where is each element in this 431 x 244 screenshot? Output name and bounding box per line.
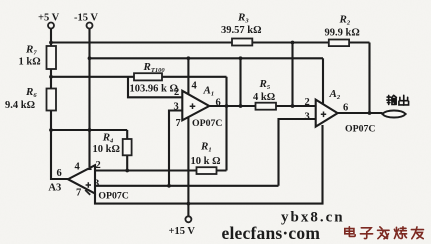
wire A3 output feedback column xyxy=(51,130,69,179)
wire bridge row to R4 xyxy=(51,129,127,131)
svg-text:OP07C: OP07C xyxy=(98,191,128,202)
resistor R1 xyxy=(197,167,217,174)
node dot R5 left xyxy=(239,104,243,108)
resistor RT100 sensor xyxy=(134,73,162,80)
svg-text:2: 2 xyxy=(305,97,310,108)
svg-text:elecfans·com: elecfans·com xyxy=(222,223,321,243)
op-amp A3 plus sign xyxy=(86,182,91,187)
op-amp A3 minus sign xyxy=(86,168,91,170)
svg-text:A3: A3 xyxy=(48,183,61,194)
wire A3 pin2 row through R1 xyxy=(95,169,227,171)
wire A1 pin3 link down xyxy=(169,111,182,186)
node dot rail R5 drop xyxy=(239,56,243,60)
wire feedback vertical pin6 to R1 xyxy=(225,77,227,171)
svg-text:1 kΩ: 1 kΩ xyxy=(19,57,41,68)
svg-text:103.96 k Ω: 103.96 k Ω xyxy=(130,84,178,95)
wire +15V rail A3 pin7 to A2 pin7 xyxy=(95,125,323,204)
resistor R6 xyxy=(47,89,57,111)
svg-text:10 kΩ: 10 kΩ xyxy=(93,144,120,155)
terminal output connector xyxy=(382,111,405,118)
wire top rail from +5V through R3 and R2 xyxy=(51,41,370,43)
node dot A1 output xyxy=(225,104,229,108)
svg-text:2: 2 xyxy=(174,87,179,98)
svg-text:OP07C: OP07C xyxy=(345,124,375,135)
node dot top rail R7 xyxy=(49,41,53,45)
svg-text:10 k Ω: 10 k Ω xyxy=(191,156,221,167)
svg-text:+5 V: +5 V xyxy=(38,13,60,24)
svg-text:3: 3 xyxy=(305,112,310,123)
wire sensor row to RT100 and A1 feedback corner xyxy=(51,76,227,78)
node dot A2 pin2 xyxy=(291,104,295,108)
op-amp A2 plus sign xyxy=(321,112,326,118)
node box around 103.96k value xyxy=(128,77,182,98)
node dot A1 pin4 rail xyxy=(187,56,191,60)
svg-text:-15 V: -15 V xyxy=(74,13,98,24)
svg-text:6: 6 xyxy=(216,98,221,109)
node dot R4 bottom xyxy=(125,169,129,173)
wire R6 down to node row xyxy=(50,110,52,131)
op-amp A1 xyxy=(182,91,209,121)
terminal +5V xyxy=(48,23,54,29)
svg-text:+15 V: +15 V xyxy=(169,226,196,237)
wire R4 bottom stub xyxy=(126,155,128,171)
watermark dianzifashaoyou glyphs xyxy=(345,227,424,239)
wire R7 to R6 link xyxy=(50,69,52,89)
resistor R5 xyxy=(256,103,277,110)
svg-text:4: 4 xyxy=(75,162,81,173)
op-amp A3 xyxy=(68,165,95,193)
node dot -15V rail start xyxy=(88,56,92,60)
wire -15V terminal drop to A3 pin4 xyxy=(88,28,90,167)
wire rail drop to R5 node xyxy=(239,58,241,106)
terminal -15V xyxy=(87,23,93,29)
svg-text:2: 2 xyxy=(96,160,101,171)
wire A2 pin3 route xyxy=(279,119,316,186)
node dot bridge row left xyxy=(49,128,53,132)
svg-text:3: 3 xyxy=(94,179,99,190)
svg-text:6: 6 xyxy=(343,103,348,114)
svg-text:4: 4 xyxy=(192,81,198,92)
node dot bridge row -15V xyxy=(88,128,92,132)
wire A1 pin4 supply xyxy=(187,58,189,94)
resistor R3 xyxy=(232,39,252,46)
svg-text:7: 7 xyxy=(176,118,181,129)
wire R2 right end down to output node xyxy=(368,43,370,114)
wire A3 pin3 row xyxy=(95,185,279,187)
wire R4 top stub xyxy=(126,130,128,139)
wire A1 output to A2 pin2 through R5 xyxy=(208,105,316,107)
op-amp A2 xyxy=(316,100,338,127)
wire A2 output to terminal xyxy=(338,112,383,114)
node dot sensor row xyxy=(49,75,53,79)
wire +5V terminal drop xyxy=(50,28,52,46)
node dot A1 pin3 join xyxy=(167,184,171,188)
terminal +15V xyxy=(185,216,191,222)
node dot +15V junction xyxy=(187,202,191,206)
svg-text:39.57 kΩ: 39.57 kΩ xyxy=(221,25,262,36)
svg-text:4 kΩ: 4 kΩ xyxy=(253,92,275,103)
node dot output R2 xyxy=(368,111,372,115)
wire A2 pin4 supply xyxy=(322,58,324,104)
svg-text:OP07C: OP07C xyxy=(192,118,222,129)
wire A1 pin7 down to +15V xyxy=(187,117,189,216)
svg-text:6: 6 xyxy=(57,168,62,179)
wire -15V rail xyxy=(90,57,324,59)
terminal output label shuchu glyphs xyxy=(387,95,409,105)
svg-text:99.9 kΩ: 99.9 kΩ xyxy=(325,28,360,39)
svg-text:9.4 kΩ: 9.4 kΩ xyxy=(5,100,35,111)
svg-text:3: 3 xyxy=(174,102,179,113)
wire A3 pin7 tick xyxy=(85,190,90,195)
op-amp A1 plus sign xyxy=(190,103,196,109)
wire R3-R2 node down to A2 pin2 xyxy=(291,43,293,107)
resistor R7 xyxy=(47,46,57,69)
node dot R3 R2 junction xyxy=(291,41,295,45)
svg-text:7: 7 xyxy=(76,188,81,199)
resistor R2 xyxy=(329,40,349,47)
resistor R4 xyxy=(123,139,132,155)
